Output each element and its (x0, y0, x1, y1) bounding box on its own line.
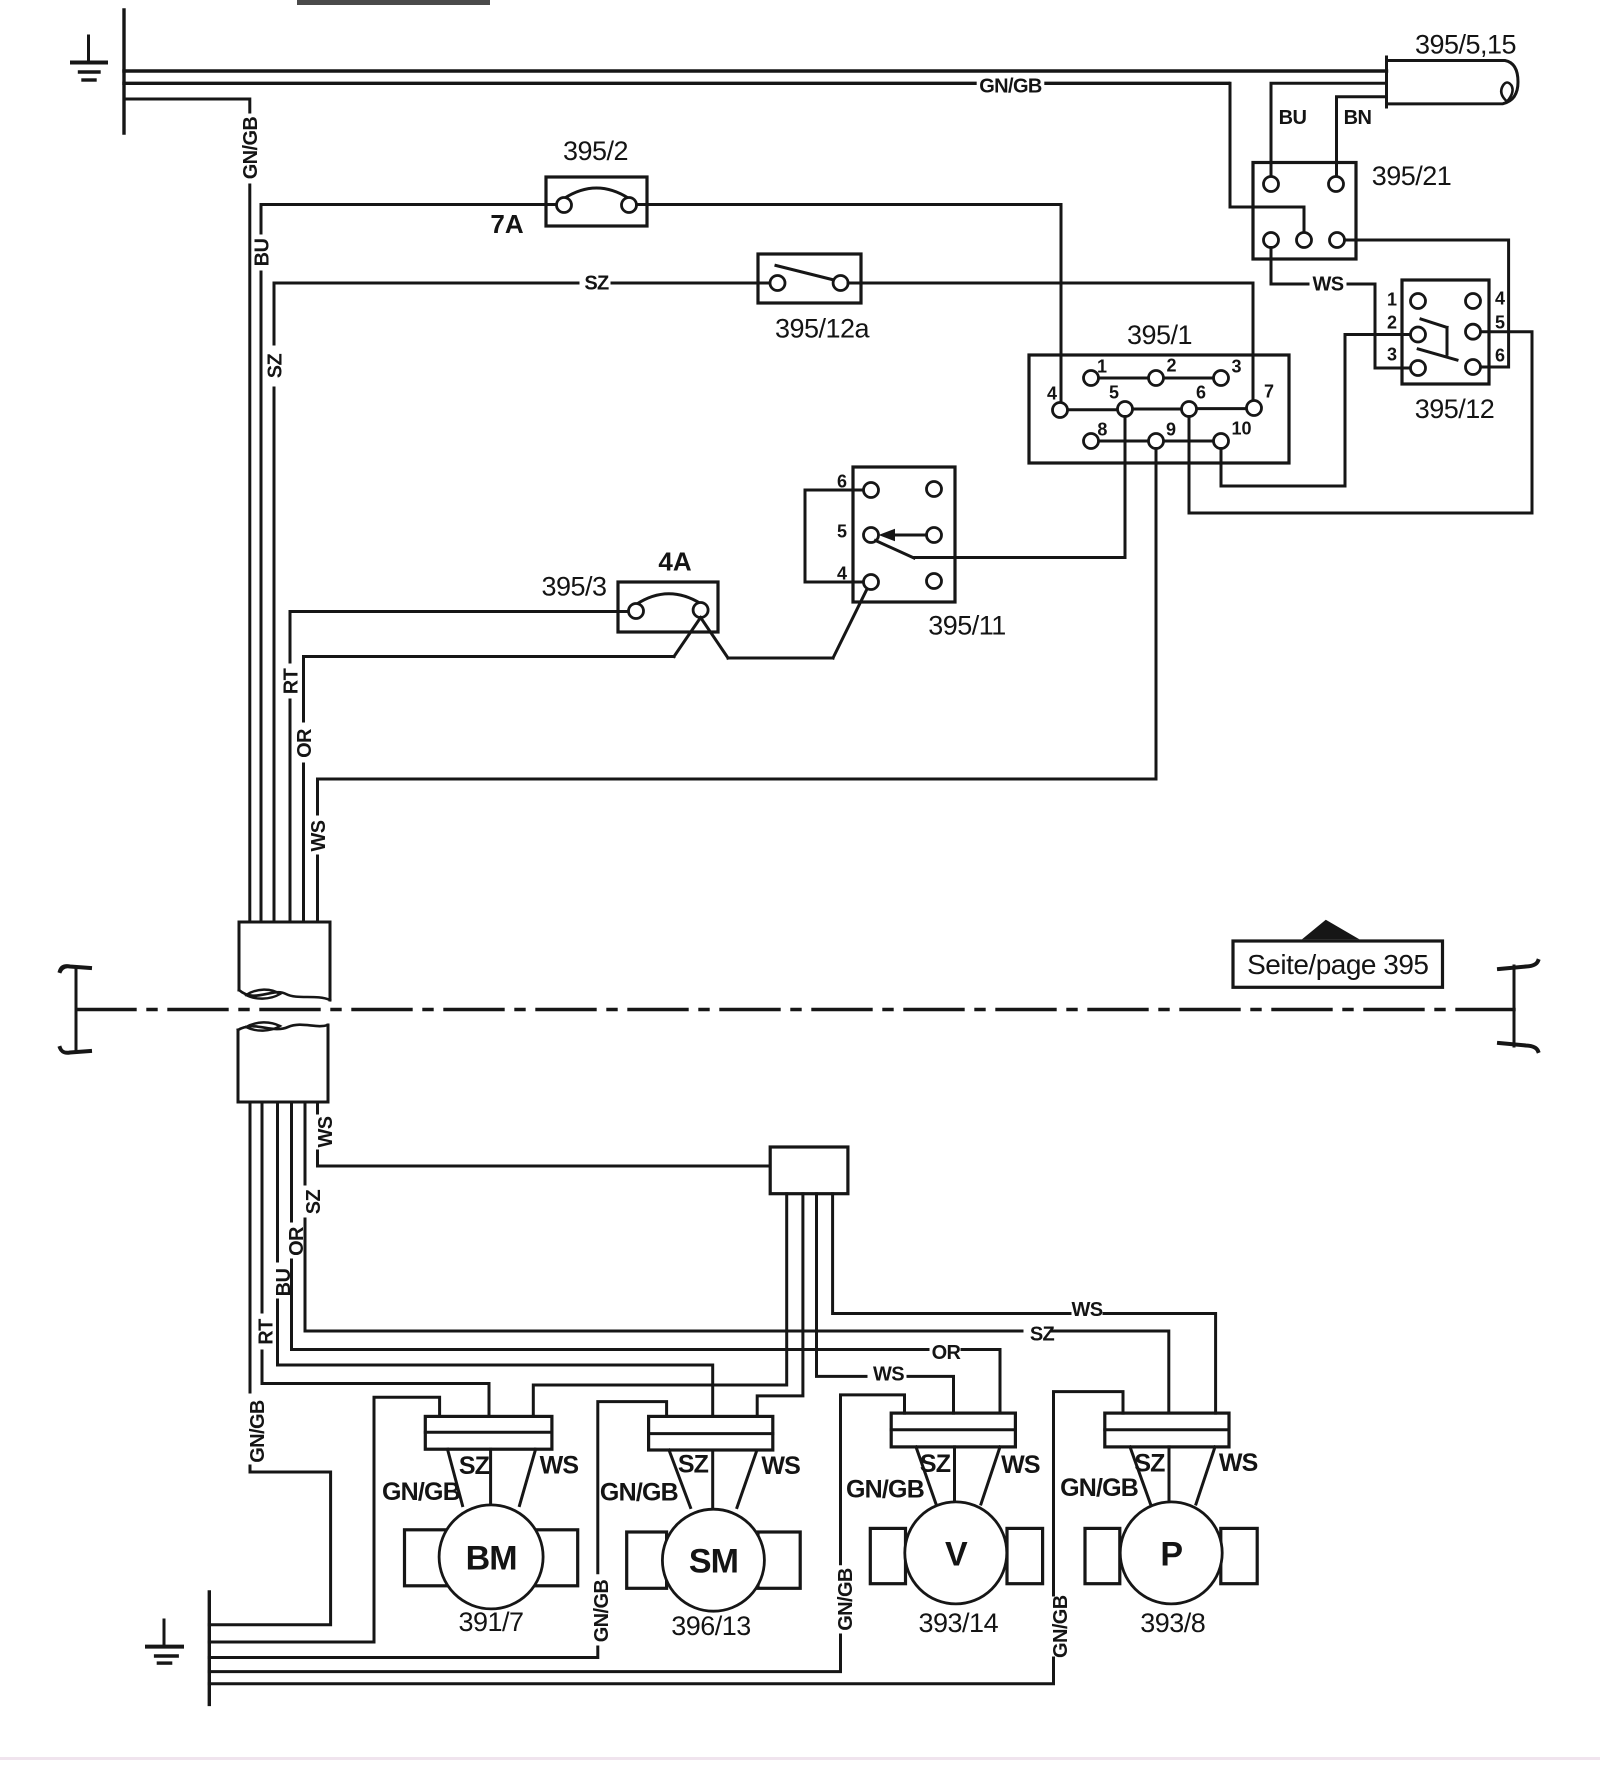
wire BN from cable (1337, 97, 1387, 177)
wire junction box to V middle pin (WS) (817, 1194, 954, 1413)
svg-text:V: V (945, 1535, 968, 1573)
svg-text:OR: OR (286, 1226, 308, 1256)
wire pin 9 down to WS line (1155, 449, 1158, 780)
svg-text:8: 8 (1097, 420, 1107, 440)
svg-text:5: 5 (837, 522, 847, 542)
svg-text:4: 4 (1047, 384, 1057, 404)
motor BM assembly (405, 1416, 578, 1609)
svg-text:WS: WS (1071, 1299, 1102, 1321)
Seite/page 395 tab (1233, 920, 1443, 988)
wire junction box to P right pin (WS) (833, 1194, 1216, 1413)
svg-text:RT: RT (256, 1319, 278, 1345)
svg-text:P: P (1160, 1535, 1182, 1573)
svg-text:WS: WS (873, 1363, 904, 1385)
wire pin 5 to relay 395/11 (914, 417, 1125, 558)
svg-text:6: 6 (1196, 383, 1206, 403)
pin 2 of 395/12 (1411, 327, 1426, 342)
svg-text:395/21: 395/21 (1372, 161, 1452, 191)
svg-text:OR: OR (932, 1342, 962, 1364)
wire SM GN/GB left pin to ground bus (209, 1402, 666, 1658)
svg-text:391/7: 391/7 (458, 1607, 523, 1637)
svg-text:SZ: SZ (303, 1189, 325, 1214)
wire junction box to SM right pin (WS) (757, 1194, 803, 1417)
wire WS to pin 9 of 395/1 (318, 779, 1157, 922)
wire 395/12a to pin 7 of 395/1 (848, 283, 1253, 400)
relay arrow (879, 529, 927, 541)
svg-text:GN/GB: GN/GB (591, 1580, 613, 1643)
switch 395/12a (758, 254, 861, 303)
wire pin 10 to pin 2 of 395/12 (1221, 335, 1411, 487)
wire BU (lower) to SM motor (278, 1102, 713, 1416)
wire V GN/GB left pin to ground bus (209, 1395, 904, 1672)
wire OR (lower) to V motor (292, 1102, 1001, 1413)
svg-text:1: 1 (1097, 357, 1107, 377)
busbar vertical (top left) (122, 10, 125, 133)
svg-text:395/12: 395/12 (1415, 394, 1495, 424)
scan artifact pink line (0, 1757, 1600, 1760)
svg-text:395/11: 395/11 (928, 611, 1006, 641)
svg-text:WS: WS (315, 1116, 337, 1147)
pin 6 of 395/11 (864, 483, 879, 498)
svg-text:393/14: 393/14 (919, 1608, 999, 1638)
bracket right (1499, 961, 1538, 1051)
pin 2 (1149, 371, 1164, 386)
pin 3 of 395/12 (1411, 361, 1426, 376)
ground bus vertical (bottom left) (208, 1592, 211, 1704)
wire relay wiper diagonal (876, 541, 915, 559)
pin 9 (1149, 434, 1164, 449)
wire bus into 395/21 internal (1230, 83, 1304, 232)
svg-text:GN/GB: GN/GB (1060, 1474, 1138, 1502)
wire GN/GB left column (upper) (124, 99, 250, 922)
wire GN/GB main bus (top) (124, 69, 1387, 72)
svg-text:6: 6 (837, 472, 847, 492)
motor V assembly (870, 1413, 1042, 1604)
pin 1 (1084, 371, 1099, 386)
svg-text:SZ: SZ (920, 1450, 951, 1478)
pin 395/21 bottom-right (1330, 233, 1345, 248)
svg-text:OR: OR (294, 728, 316, 758)
fuse 395/2 (546, 177, 647, 226)
wire SZ (lower) to P motor (305, 1102, 1169, 1413)
wire second bus line to 395/21 (124, 82, 1229, 85)
wire pins 4-5-6-7 link (1068, 409, 1247, 410)
wire OR to fuse 395/3 output (304, 657, 675, 923)
svg-text:7: 7 (1264, 382, 1274, 402)
svg-text:GN/GB: GN/GB (247, 1400, 269, 1463)
wire fuse 395/3 output to OR and pin 4 of relay (674, 590, 867, 658)
wire 395/21 to pin 6 of 395/12 (1345, 240, 1509, 367)
svg-text:6: 6 (1495, 346, 1505, 366)
svg-text:SZ: SZ (1134, 1450, 1165, 1478)
pin 5 of 395/11 (864, 528, 879, 543)
svg-text:395/3: 395/3 (541, 572, 606, 602)
connector 395/1 (1029, 355, 1289, 463)
wire BU to fuse 395/2 (261, 205, 557, 923)
pin 4 of 395/11 (864, 575, 879, 590)
svg-text:395/1: 395/1 (1127, 320, 1192, 350)
svg-text:SZ: SZ (459, 1452, 490, 1480)
svg-text:GN/GB: GN/GB (382, 1478, 460, 1506)
wire pins 8-9-10 link (1099, 440, 1214, 443)
connector block upper (bulkhead) (239, 922, 330, 1000)
cable 395/5,15 (1387, 57, 1519, 107)
wire pins 1-2-3 link (1099, 377, 1214, 380)
svg-text:GN/GB: GN/GB (1050, 1595, 1072, 1658)
motor P assembly (1085, 1413, 1257, 1604)
scan artifact gray bar (297, 0, 490, 5)
svg-text:GN/GB: GN/GB (835, 1568, 857, 1631)
pin right-bottom of 395/11 (927, 574, 942, 589)
svg-text:WS: WS (761, 1452, 800, 1480)
fuse 395/3 (618, 582, 718, 632)
svg-text:395/5,15: 395/5,15 (1415, 30, 1516, 60)
wire SZ to switch 395/12a (274, 283, 770, 922)
jumper bracket pins 6-4 (805, 490, 863, 582)
wire RT (lower) to BM motor (262, 1102, 489, 1416)
svg-text:WS: WS (1219, 1449, 1258, 1477)
pin 395/21 top-left (1264, 177, 1279, 192)
svg-text:4: 4 (1495, 289, 1505, 309)
bracket left (60, 966, 90, 1053)
svg-text:Seite/page 395: Seite/page 395 (1247, 949, 1428, 980)
pin 7 (1247, 401, 1262, 416)
pin 395/21 bottom-middle (1297, 233, 1312, 248)
pin 5 (1118, 402, 1133, 417)
svg-text:BM: BM (466, 1539, 517, 1577)
pin 10 (1214, 434, 1229, 449)
wire BU from cable (1271, 83, 1387, 176)
wire junction box to BM right pin (WS) (533, 1194, 786, 1416)
svg-text:395/12a: 395/12a (775, 314, 871, 344)
svg-text:BU: BU (1279, 107, 1307, 129)
svg-text:GN/GB: GN/GB (600, 1479, 678, 1507)
pin right-top of 395/11 (927, 482, 942, 497)
svg-text:4A: 4A (658, 547, 691, 577)
svg-text:WS: WS (308, 820, 330, 851)
svg-text:3: 3 (1231, 357, 1241, 377)
svg-text:SZ: SZ (1030, 1323, 1055, 1345)
wire GN/GB (lower) to ground bus (209, 1102, 330, 1625)
svg-text:SM: SM (689, 1543, 738, 1581)
pin 395/21 bottom-left (1264, 233, 1279, 248)
connector block lower (bulkhead) (238, 1022, 328, 1102)
svg-text:2: 2 (1166, 356, 1176, 376)
svg-text:396/13: 396/13 (671, 1611, 751, 1641)
svg-text:3: 3 (1387, 345, 1397, 365)
svg-text:SZ: SZ (584, 272, 609, 294)
svg-text:WS: WS (540, 1452, 579, 1480)
wire fuse 395/2 to pin 4 of 395/1 (637, 205, 1062, 402)
svg-text:5: 5 (1109, 383, 1119, 403)
pin right-middle of 395/11 (927, 528, 942, 543)
svg-text:10: 10 (1231, 418, 1251, 438)
relay 395/11 (853, 467, 955, 602)
svg-text:2: 2 (1387, 313, 1397, 333)
svg-text:WS: WS (1312, 273, 1343, 295)
svg-text:5: 5 (1495, 313, 1505, 333)
svg-text:BN: BN (1344, 107, 1372, 129)
wire P GN/GB left pin to ground bus (209, 1392, 1123, 1684)
svg-text:393/8: 393/8 (1140, 1608, 1205, 1638)
wire pin 6 to pin 5 of 395/12 (1189, 332, 1532, 513)
ground (top left) (72, 36, 106, 80)
junction box (770, 1147, 848, 1194)
pin 8 (1084, 434, 1099, 449)
switch 395/12 (1402, 280, 1489, 384)
svg-text:BU: BU (273, 1269, 295, 1297)
svg-text:SZ: SZ (678, 1450, 709, 1478)
pin 1 of 395/12 (1411, 294, 1426, 309)
wire BM GN/GB left pin to ground bus (209, 1397, 439, 1642)
svg-text:395/2: 395/2 (563, 136, 628, 166)
pin 3 (1214, 371, 1229, 386)
wire WS (lower) to junction box (318, 1102, 771, 1166)
svg-text:9: 9 (1166, 419, 1176, 439)
pin 6 (1182, 402, 1197, 417)
pin 4 of 395/12 (1466, 294, 1481, 309)
svg-text:WS: WS (1001, 1451, 1040, 1479)
pin 6 of 395/12 (1466, 360, 1481, 375)
svg-text:GN/GB: GN/GB (979, 75, 1042, 97)
centerline (page divider) (77, 1008, 1514, 1011)
svg-text:1: 1 (1387, 290, 1397, 310)
svg-text:SZ: SZ (265, 353, 287, 378)
wire WS 395/21 to pin 3 of 395/12 (1271, 248, 1411, 369)
motor SM assembly (627, 1416, 801, 1611)
ground (bottom left) (147, 1620, 182, 1663)
svg-text:BU: BU (252, 239, 274, 267)
pin 395/21 top-right (1329, 177, 1344, 192)
svg-text:GN/GB: GN/GB (240, 117, 262, 180)
svg-text:4: 4 (837, 564, 847, 584)
connector 395/21 (1253, 163, 1356, 260)
svg-text:7A: 7A (490, 209, 523, 239)
wire RT to fuse 395/3 (290, 612, 629, 923)
svg-text:GN/GB: GN/GB (846, 1476, 924, 1504)
pin 5 of 395/12 (1466, 324, 1481, 339)
pin 4 (1053, 403, 1068, 418)
svg-text:RT: RT (281, 668, 303, 694)
